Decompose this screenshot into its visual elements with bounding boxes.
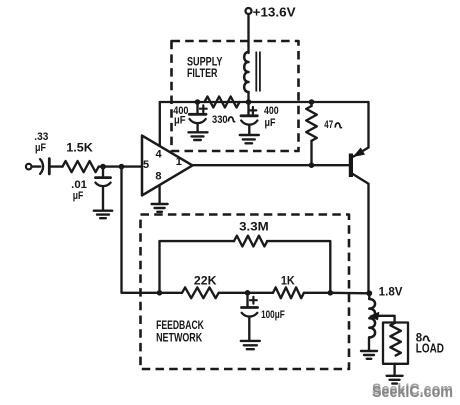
node rail junction 47ohm — [309, 99, 315, 105]
inductor L1 supply filter choke — [244, 52, 248, 92]
svg-text:1.5K: 1.5K — [66, 140, 93, 154]
svg-text:SeekIC.com: SeekIC.com — [372, 384, 453, 401]
wire supply terminal to inductor — [247, 14, 249, 53]
transistor Q1 collector lead — [353, 174, 369, 184]
wire rail to op-amp pin 4 — [159, 102, 161, 146]
ground below C3 — [241, 341, 260, 349]
wire R1 to op-amp pin 5 — [99, 165, 142, 167]
tap arrow into coil — [370, 312, 379, 319]
supply filter dashed box — [172, 41, 299, 151]
svg-text:1K: 1K — [281, 273, 295, 287]
svg-text:100μF: 100μF — [261, 309, 285, 321]
svg-text:μF: μF — [35, 142, 46, 154]
resistor 3.3M — [234, 236, 267, 247]
resistor 330 ohm — [205, 97, 240, 108]
svg-text:22K: 22K — [194, 273, 217, 287]
transistor Q1 emitter arrow — [354, 148, 364, 156]
load box — [383, 323, 408, 364]
capacitor C 400uF right — [247, 102, 249, 115]
svg-text:47: 47 — [324, 119, 333, 131]
op-amp U1 — [142, 136, 193, 196]
inductor L2 output tapped coil — [368, 293, 370, 299]
svg-text:.33: .33 — [34, 131, 48, 143]
transistor Q1 emitter lead — [354, 148, 369, 157]
ohm glyph 330 — [228, 117, 235, 122]
svg-text:4: 4 — [156, 148, 163, 160]
wire supply rail — [160, 101, 369, 103]
svg-text:3.3M: 3.3M — [239, 220, 269, 234]
resistor 8 ohm load — [390, 323, 401, 356]
ohm glyph 8 — [423, 336, 430, 341]
resistor 1K — [273, 287, 304, 298]
wire feedback left to 22K — [160, 292, 183, 294]
resistor 47 ohm — [310, 102, 312, 106]
node +13.6V terminal — [246, 8, 252, 14]
svg-text:5: 5 — [143, 159, 149, 171]
svg-text:1.8V: 1.8V — [379, 286, 403, 298]
transistor Q1 base bar — [349, 154, 353, 178]
wire 22K to 1K — [219, 292, 273, 294]
svg-text:FILTER: FILTER — [187, 66, 218, 80]
capacitor C 400uF left — [196, 102, 198, 113]
node feedback left junction — [157, 290, 163, 296]
ground below C2 — [94, 211, 112, 219]
svg-text:LOAD: LOAD — [416, 341, 444, 355]
node 1.8V — [366, 290, 372, 296]
svg-text:+13.6V: +13.6V — [253, 4, 296, 19]
wire collector to 1.8V node — [367, 184, 370, 293]
input terminal — [26, 164, 32, 170]
node rail junction C400 left — [195, 99, 201, 105]
feedback network dashed box — [141, 215, 350, 370]
svg-text:μF: μF — [265, 117, 276, 129]
ground below load — [387, 376, 403, 384]
wire C1 to R1 — [49, 165, 62, 167]
node C2 junction — [100, 164, 106, 170]
wire input terminal to C1 — [32, 165, 41, 167]
node 47ohm to base junction — [309, 162, 315, 168]
wire op-amp output to base — [193, 164, 349, 166]
wire tap to load — [377, 316, 395, 323]
wire 3.3M top branch — [160, 241, 331, 293]
svg-text:330: 330 — [212, 114, 228, 126]
svg-text:8: 8 — [155, 171, 161, 183]
wire inductor to rail — [247, 92, 249, 102]
wire op-amp pin 8 to ground — [158, 185, 160, 203]
svg-text:μF: μF — [174, 115, 186, 127]
wire load to ground — [393, 364, 395, 375]
svg-text:1: 1 — [176, 156, 182, 168]
node rail junction inductor — [246, 99, 252, 105]
svg-text:FEEDBACK: FEEDBACK — [156, 319, 204, 332]
capacitor C1 .33uF input — [40, 159, 43, 174]
svg-text:NETWORK: NETWORK — [156, 332, 203, 345]
node feedback riser junction — [119, 164, 125, 170]
ground op-amp pin 8 — [152, 204, 168, 212]
capacitor C3 100uF — [246, 293, 248, 307]
node 100uF junction — [245, 290, 251, 296]
node feedback right junction — [328, 290, 334, 296]
ground below L2 — [361, 351, 377, 359]
svg-text:μF: μF — [73, 190, 84, 202]
capacitor C2 .01uF — [102, 167, 104, 177]
wire feedback to 1.8V node — [330, 292, 369, 295]
wire rail corner down to emitter — [367, 102, 369, 148]
ohm glyph 47 — [335, 123, 342, 128]
resistor 22K — [182, 287, 219, 298]
wire feedback riser — [122, 167, 160, 293]
wire 1K to right junction — [304, 292, 330, 294]
resistor R1 1.5K — [63, 161, 99, 172]
svg-text:400: 400 — [264, 105, 279, 117]
ground below C 400uF left — [189, 132, 208, 140]
ground below C 400uF right — [240, 135, 259, 143]
